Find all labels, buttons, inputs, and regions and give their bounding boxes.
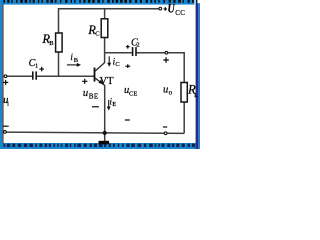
left frame line xyxy=(2,4,4,143)
terminal: input top xyxy=(4,75,7,78)
svg-text:U: U xyxy=(168,2,176,16)
svg-text:B: B xyxy=(74,57,79,64)
wire: C2 to output terminal and right rail down xyxy=(137,53,185,83)
svg-text:C: C xyxy=(115,61,119,68)
svg-text:1: 1 xyxy=(35,62,38,69)
svg-text:u: u xyxy=(163,84,168,95)
junction dot emitter/bottom rail xyxy=(103,131,107,135)
terminal: output bottom xyxy=(164,132,167,135)
svg-text:CE: CE xyxy=(129,90,137,97)
capacitor C2 plates xyxy=(133,47,136,56)
border bottom blue strip xyxy=(0,143,200,149)
transistor VT bar xyxy=(94,68,96,82)
emitter arrowhead xyxy=(98,80,103,84)
svg-text:u: u xyxy=(83,88,88,99)
svg-text:o: o xyxy=(169,88,173,96)
minus uCE xyxy=(125,119,130,121)
wire: RC bottom to collector xyxy=(104,38,106,63)
svg-text:B: B xyxy=(49,40,54,47)
minus ui xyxy=(3,125,9,127)
wire: base rail C1 to transistor xyxy=(37,75,94,77)
wire: RB bottom to base rail xyxy=(58,52,60,76)
svg-text:L: L xyxy=(194,92,198,99)
svg-text:C: C xyxy=(95,31,99,38)
resistor RC xyxy=(101,19,108,38)
svg-text:E: E xyxy=(112,101,116,108)
wire: ground stub xyxy=(104,133,106,141)
wire: bottom rail xyxy=(5,132,184,133)
wire: emitter down xyxy=(104,85,106,133)
wire: collector node to C2 xyxy=(105,52,132,54)
terminal: +Ucc xyxy=(159,7,162,10)
svg-text:VT: VT xyxy=(100,76,115,87)
border bottom ticks xyxy=(4,144,195,147)
arrow iE xyxy=(108,100,110,107)
plus uCE xyxy=(125,64,130,68)
svg-text:BE: BE xyxy=(89,92,99,100)
wire: RC top stub xyxy=(104,9,106,19)
svg-text:2: 2 xyxy=(136,41,139,48)
border top ticks xyxy=(3,0,194,3)
svg-text:i: i xyxy=(7,100,9,107)
minus uo xyxy=(163,126,167,128)
terminal: input bottom xyxy=(4,131,7,134)
arrow iC xyxy=(108,56,110,63)
plus Ucc xyxy=(164,7,167,11)
wire: top rail xyxy=(59,9,159,33)
wire: input terminal to C1 xyxy=(7,75,32,77)
transistor emitter lead xyxy=(95,78,105,86)
border right navy line xyxy=(196,3,198,149)
ground bar xyxy=(99,141,110,145)
plus C1 xyxy=(39,67,44,72)
border top blue strip xyxy=(0,0,195,5)
plus ui xyxy=(3,80,8,85)
terminal: output top xyxy=(165,51,168,54)
transistor collector lead xyxy=(95,62,105,71)
plus uBE xyxy=(82,79,87,84)
svg-text:CC: CC xyxy=(175,9,185,17)
resistor RB xyxy=(56,33,63,52)
arrow iB xyxy=(67,64,78,66)
plus uo xyxy=(163,57,169,63)
border left blue line xyxy=(0,0,2,149)
minus uBE xyxy=(92,106,99,108)
capacitor C1 plates xyxy=(33,71,36,79)
plus C2 xyxy=(126,45,130,49)
wire: RL bottom down xyxy=(183,102,185,133)
resistor RL xyxy=(181,83,187,103)
